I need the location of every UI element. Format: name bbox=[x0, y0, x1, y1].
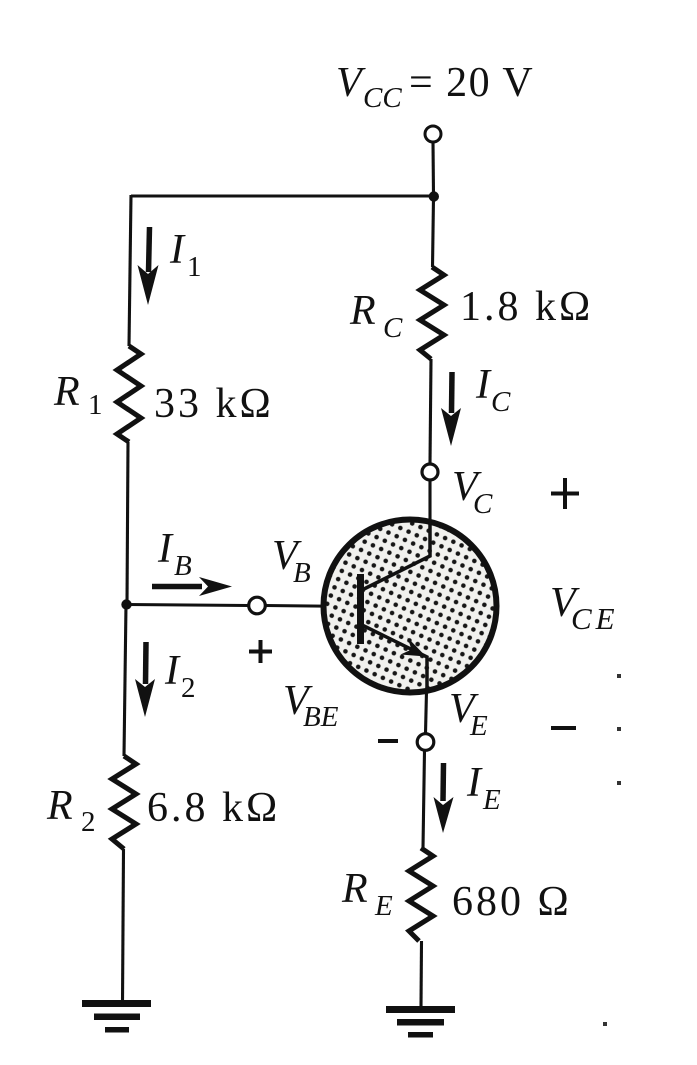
wire right rail upper bbox=[433, 197, 434, 267]
wire left rail lower bbox=[124, 604, 126, 756]
label IC bbox=[475, 362, 511, 418]
speck 1 bbox=[617, 674, 621, 678]
arrow I2 bbox=[135, 642, 155, 717]
collector lead inside bbox=[362, 521, 430, 590]
ground right bbox=[386, 1006, 455, 1038]
label VCC = 20 V bbox=[336, 60, 534, 114]
svg-text:33 kΩ: 33 kΩ bbox=[154, 381, 274, 427]
arrow I1 bbox=[138, 227, 159, 305]
svg-text:1: 1 bbox=[88, 389, 103, 421]
svg-text:R: R bbox=[341, 866, 368, 912]
label minus (VBE minus) bbox=[378, 739, 398, 743]
svg-text:I: I bbox=[466, 760, 483, 806]
wire base right bbox=[266, 606, 358, 607]
transistor Q1 bbox=[324, 520, 497, 693]
wire left rail mid bbox=[127, 442, 128, 604]
svg-text:CC: CC bbox=[363, 82, 402, 114]
terminal VB bbox=[249, 597, 266, 614]
terminal VCC bbox=[425, 126, 441, 142]
svg-text:2: 2 bbox=[181, 672, 196, 704]
terminal VC bbox=[422, 464, 438, 480]
wire VCC terminal to junction bbox=[431, 142, 435, 196]
svg-text:I: I bbox=[169, 227, 186, 273]
label IB bbox=[157, 526, 192, 582]
ground left bbox=[82, 1000, 151, 1033]
svg-text:1: 1 bbox=[187, 251, 202, 283]
label VCE bbox=[550, 580, 619, 636]
emitter arrowhead bbox=[401, 638, 427, 657]
label RE bbox=[341, 866, 393, 922]
svg-text:B: B bbox=[174, 550, 192, 582]
svg-text:B: B bbox=[293, 557, 311, 589]
label VC bbox=[452, 464, 493, 520]
arrow IE bbox=[434, 763, 454, 833]
label RC bbox=[349, 288, 403, 344]
terminal VE bbox=[417, 734, 434, 751]
svg-text:R: R bbox=[349, 288, 376, 334]
svg-text:BE: BE bbox=[303, 701, 339, 733]
arrow IB bbox=[152, 577, 232, 596]
svg-text:C: C bbox=[383, 312, 403, 344]
label VE bbox=[449, 686, 488, 742]
resistor RE bbox=[409, 848, 433, 941]
label + (VBE plus) bbox=[249, 640, 272, 663]
label I1 bbox=[169, 227, 202, 283]
node junction top bbox=[429, 191, 439, 201]
label R1 bbox=[53, 369, 103, 421]
label + (VCE plus) bbox=[551, 478, 579, 509]
svg-text:V: V bbox=[336, 60, 366, 106]
resistor R2 bbox=[112, 756, 136, 849]
wire base left bbox=[127, 605, 249, 606]
arrow IC bbox=[441, 372, 461, 446]
speck 4 bbox=[603, 1022, 607, 1026]
label VBE bbox=[283, 678, 339, 733]
label I2 bbox=[164, 648, 196, 704]
svg-text:E: E bbox=[482, 784, 501, 816]
svg-text:I: I bbox=[164, 648, 181, 694]
svg-text:680 Ω: 680 Ω bbox=[452, 879, 572, 925]
svg-text:2: 2 bbox=[81, 806, 96, 838]
svg-text:I: I bbox=[475, 362, 492, 408]
svg-text:1.8 kΩ: 1.8 kΩ bbox=[460, 284, 593, 330]
resistor RC bbox=[420, 267, 444, 359]
label R2 bbox=[46, 783, 96, 838]
wire R2 to ground bbox=[123, 849, 124, 1003]
svg-text:6.8 kΩ: 6.8 kΩ bbox=[147, 785, 280, 831]
wire emitter to VE bbox=[426, 691, 427, 734]
speck 2 bbox=[617, 727, 621, 731]
wire left rail upper bbox=[129, 195, 131, 346]
resistor R1 bbox=[117, 346, 141, 442]
label VB bbox=[272, 533, 311, 589]
emitter lead inside bbox=[362, 625, 427, 691]
node base junction bbox=[121, 599, 131, 609]
svg-text:C: C bbox=[473, 488, 493, 520]
svg-text:CE: CE bbox=[571, 601, 619, 636]
wire RC to VC bbox=[430, 359, 431, 464]
wire top horizontal bbox=[131, 194, 434, 197]
svg-text:R: R bbox=[53, 369, 80, 415]
label IE bbox=[466, 760, 501, 816]
svg-text:E: E bbox=[469, 710, 488, 742]
base bar bbox=[357, 574, 364, 644]
speck 3 bbox=[617, 781, 621, 785]
svg-text:E: E bbox=[374, 890, 393, 922]
wire VC to transistor bbox=[428, 480, 431, 523]
wire VE to RE bbox=[423, 751, 425, 849]
svg-text:I: I bbox=[157, 526, 174, 572]
wire RE to ground bbox=[419, 941, 423, 1006]
svg-text:C: C bbox=[491, 386, 511, 418]
svg-text:R: R bbox=[46, 783, 73, 829]
svg-text:= 20 V: = 20 V bbox=[409, 60, 534, 106]
label minus (VCE minus) bbox=[551, 726, 576, 730]
